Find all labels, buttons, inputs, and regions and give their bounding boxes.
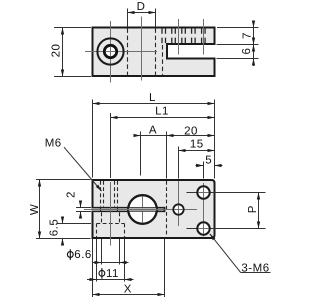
hidden bore lines top view xyxy=(128,28,156,75)
svg-text:5: 5 xyxy=(205,155,212,167)
dimension 6.5 xyxy=(49,217,92,245)
centerline top right hole horizontal xyxy=(187,192,266,194)
svg-text:6.5: 6.5 xyxy=(49,219,61,237)
M6 side hole front view xyxy=(173,204,183,214)
svg-text:L: L xyxy=(149,92,156,104)
svg-text:W: W xyxy=(29,204,41,215)
centerline M6 col2 top view xyxy=(203,19,205,55)
dimension X xyxy=(93,284,165,296)
dimension phi6.6 xyxy=(67,249,128,262)
centerline slit horizontal xyxy=(84,209,197,211)
centerline bore vertical top view xyxy=(141,17,143,81)
svg-text:P: P xyxy=(247,205,259,213)
hidden M6 thread lines upper block xyxy=(101,181,118,207)
label M6 with leader xyxy=(45,138,102,191)
dimension 5 xyxy=(196,155,223,167)
centerline M6 col1 top view xyxy=(178,19,180,55)
dimension D xyxy=(128,1,156,27)
dimension phi11 xyxy=(87,268,134,280)
centerline M6 col1 front view xyxy=(178,181,180,226)
slit seen through bore xyxy=(129,208,156,212)
dimension P xyxy=(247,193,259,229)
svg-text:M6: M6 xyxy=(45,138,62,150)
dimension 7 and 6 right of top view xyxy=(217,21,259,67)
dimension L1 xyxy=(111,105,215,117)
hidden slit-stub line top view xyxy=(162,45,164,75)
svg-text:A: A xyxy=(149,125,157,137)
label 3-M6 with leader xyxy=(210,234,271,275)
slit cut xyxy=(91,207,165,212)
dimension L xyxy=(93,92,215,104)
hidden counterbore lines lower block xyxy=(97,207,125,237)
svg-text:X: X xyxy=(124,284,132,296)
extension lines below front view xyxy=(93,239,165,297)
svg-text:11: 11 xyxy=(106,268,119,280)
svg-text:7: 7 xyxy=(242,32,254,39)
svg-text:D: D xyxy=(137,1,146,13)
svg-text:6: 6 xyxy=(241,48,253,55)
svg-text:20: 20 xyxy=(51,44,63,58)
svg-text:15: 15 xyxy=(190,139,204,151)
dimension 2 slit xyxy=(66,191,92,218)
dimension 20 left of top view xyxy=(51,28,92,77)
top view body with open slot xyxy=(93,28,215,77)
dimension W xyxy=(29,180,91,239)
top right M6 hole xyxy=(197,186,209,198)
front view body with rounded right corners xyxy=(93,180,215,238)
svg-text:L1: L1 xyxy=(155,105,169,117)
centerline hole column front view xyxy=(110,182,112,246)
clamp bore front view xyxy=(128,195,157,224)
serration hidden ticks on top band xyxy=(162,28,205,43)
dimension A and 20 xyxy=(134,125,215,138)
centerline M6 col2 front view xyxy=(203,183,205,236)
centerline over bore xyxy=(142,196,144,223)
dimension 15 xyxy=(179,139,215,151)
centerline bottom right hole horizontal xyxy=(187,228,266,230)
bottom right M6 hole xyxy=(197,222,209,234)
extension lines above front view xyxy=(93,100,215,179)
hidden slot-end line front view xyxy=(166,181,168,237)
centerline hole vertical top view xyxy=(110,21,112,83)
centerline hole horizontal top view xyxy=(85,51,157,53)
svg-text:20: 20 xyxy=(184,125,198,137)
svg-text:2: 2 xyxy=(66,191,78,198)
svg-text:3-M6: 3-M6 xyxy=(241,263,269,275)
svg-text:6.6: 6.6 xyxy=(74,249,92,261)
counterbore hole top view xyxy=(97,38,123,64)
